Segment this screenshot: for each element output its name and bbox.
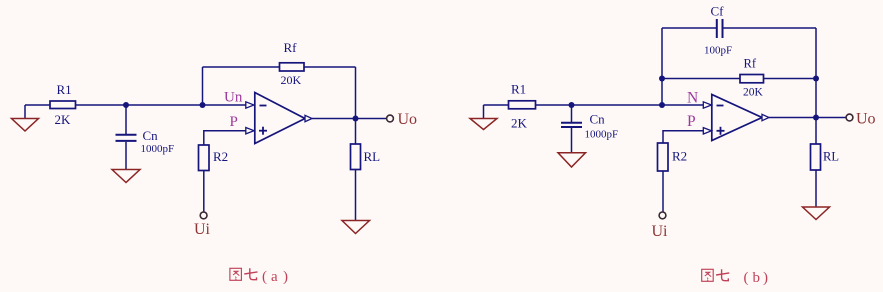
resistor Rf xyxy=(280,63,305,71)
capacitor Cn xyxy=(116,135,137,141)
ground (below RL) xyxy=(342,221,370,234)
svg-text:R2: R2 xyxy=(672,149,687,164)
capacitor Cf xyxy=(717,19,723,38)
wire (R1 to op-amp inverting input) xyxy=(76,104,247,106)
svg-text:100pF: 100pF xyxy=(704,45,732,57)
caption 图七（a） xyxy=(230,268,288,285)
pin (inverting input) xyxy=(703,102,711,108)
wire (Rf loop right of Rf) xyxy=(764,78,817,80)
junction (Rf loop left) xyxy=(659,76,665,82)
resistor R1 xyxy=(509,101,536,109)
resistor R2 xyxy=(658,143,669,171)
junction (Cn tap) xyxy=(123,102,129,108)
pin (output) xyxy=(305,115,312,121)
svg-text:): ) xyxy=(283,269,288,285)
wire (output node to RL) xyxy=(355,119,357,145)
wire (op-amp output) xyxy=(769,117,846,119)
svg-text:Rf: Rf xyxy=(284,40,298,55)
wire (feedback down to output) xyxy=(355,67,357,119)
wire (RL to ground) xyxy=(355,170,357,221)
ground (below Cn) xyxy=(112,170,140,183)
resistor RL xyxy=(351,144,361,170)
pin (non-inverting input) xyxy=(703,128,711,134)
junction (output node) xyxy=(813,115,819,121)
svg-text:N: N xyxy=(687,90,698,107)
svg-text:a: a xyxy=(271,269,278,285)
op-amp U2 xyxy=(712,95,762,141)
svg-text:2K: 2K xyxy=(511,116,528,131)
ground (left of R1) xyxy=(470,105,497,130)
svg-text:(: ( xyxy=(744,270,749,286)
svg-text:P: P xyxy=(230,114,238,130)
terminal Ui xyxy=(659,212,666,219)
junction (Cn tap) xyxy=(569,102,575,108)
svg-text:Uo: Uo xyxy=(398,111,418,128)
svg-text:): ) xyxy=(763,270,768,286)
wire (right feedback riser) xyxy=(815,28,817,118)
svg-text:1000pF: 1000pF xyxy=(585,129,619,141)
svg-text:Cn: Cn xyxy=(590,112,606,127)
ground (left of R1) xyxy=(12,105,39,131)
wire (Rf loop left of Rf) xyxy=(662,78,740,80)
caption 图七（b） xyxy=(702,269,768,286)
wire (output node to RL) xyxy=(815,118,817,145)
wire (feedback riser) xyxy=(202,67,204,105)
wire (feedback top right of Rf) xyxy=(304,66,356,68)
svg-text:Un: Un xyxy=(224,90,243,106)
ground (below RL) xyxy=(803,207,830,220)
wire (Cf loop right of Cf) xyxy=(723,27,817,29)
wire (junction to Cn) xyxy=(125,105,127,134)
wire (Cn to ground) xyxy=(571,128,573,153)
junction (output node) xyxy=(353,116,359,122)
wire (ground to R1) xyxy=(484,104,509,106)
capacitor Cn xyxy=(561,123,582,127)
wire (RL to ground) xyxy=(815,170,817,207)
junction (feedback tap at inverting input) xyxy=(200,102,206,108)
pin (non-inverting input) xyxy=(246,128,254,134)
wire (Cf loop left of Cf) xyxy=(662,27,717,29)
svg-text:P: P xyxy=(687,113,696,130)
terminal Uo xyxy=(846,114,853,121)
svg-text:RL: RL xyxy=(823,150,839,164)
wire (junction to Cn) xyxy=(571,105,573,122)
svg-text:(: ( xyxy=(262,269,267,285)
resistor R1 xyxy=(50,101,76,109)
svg-text:RL: RL xyxy=(364,149,381,164)
svg-text:R1: R1 xyxy=(57,82,72,97)
wire (op-amp output) xyxy=(312,118,387,120)
svg-text:1000pF: 1000pF xyxy=(141,143,175,155)
wire (R1 to op-amp inverting input) xyxy=(536,104,704,106)
junction (feedback tap at inverting input) xyxy=(659,102,665,108)
svg-text:20K: 20K xyxy=(743,87,764,99)
svg-text:Ui: Ui xyxy=(194,221,211,238)
wire (Cn to ground) xyxy=(125,142,127,170)
wire (P input) xyxy=(663,131,704,143)
ground (below Cn) xyxy=(558,153,586,167)
wire (feedback top left of Rf) xyxy=(203,66,280,68)
svg-text:20K: 20K xyxy=(281,73,302,87)
terminal Uo xyxy=(387,115,394,122)
svg-text:R1: R1 xyxy=(511,82,526,97)
svg-text:Cn: Cn xyxy=(143,128,159,143)
junction (Rf loop right) xyxy=(813,76,819,82)
svg-text:Uo: Uo xyxy=(856,111,876,128)
svg-text:R2: R2 xyxy=(213,149,228,164)
svg-text:2K: 2K xyxy=(55,112,72,127)
wire (R2 to Ui terminal) xyxy=(662,171,664,212)
terminal Ui xyxy=(200,212,207,219)
pin (output) xyxy=(762,114,769,120)
wire (feedback riser) xyxy=(661,28,663,105)
wire (P input) xyxy=(204,131,246,145)
op-amp U1 xyxy=(255,93,305,144)
svg-text:Cf: Cf xyxy=(711,4,725,19)
pin (inverting input) xyxy=(246,102,254,108)
resistor R2 xyxy=(199,145,210,171)
wire (ground to R1) xyxy=(25,104,50,106)
svg-text:Ui: Ui xyxy=(652,223,669,240)
svg-text:b: b xyxy=(753,270,761,286)
resistor Rf xyxy=(740,75,764,83)
wire (R2 to Ui terminal) xyxy=(203,171,205,213)
resistor RL xyxy=(811,144,821,170)
svg-text:Rf: Rf xyxy=(744,57,757,71)
